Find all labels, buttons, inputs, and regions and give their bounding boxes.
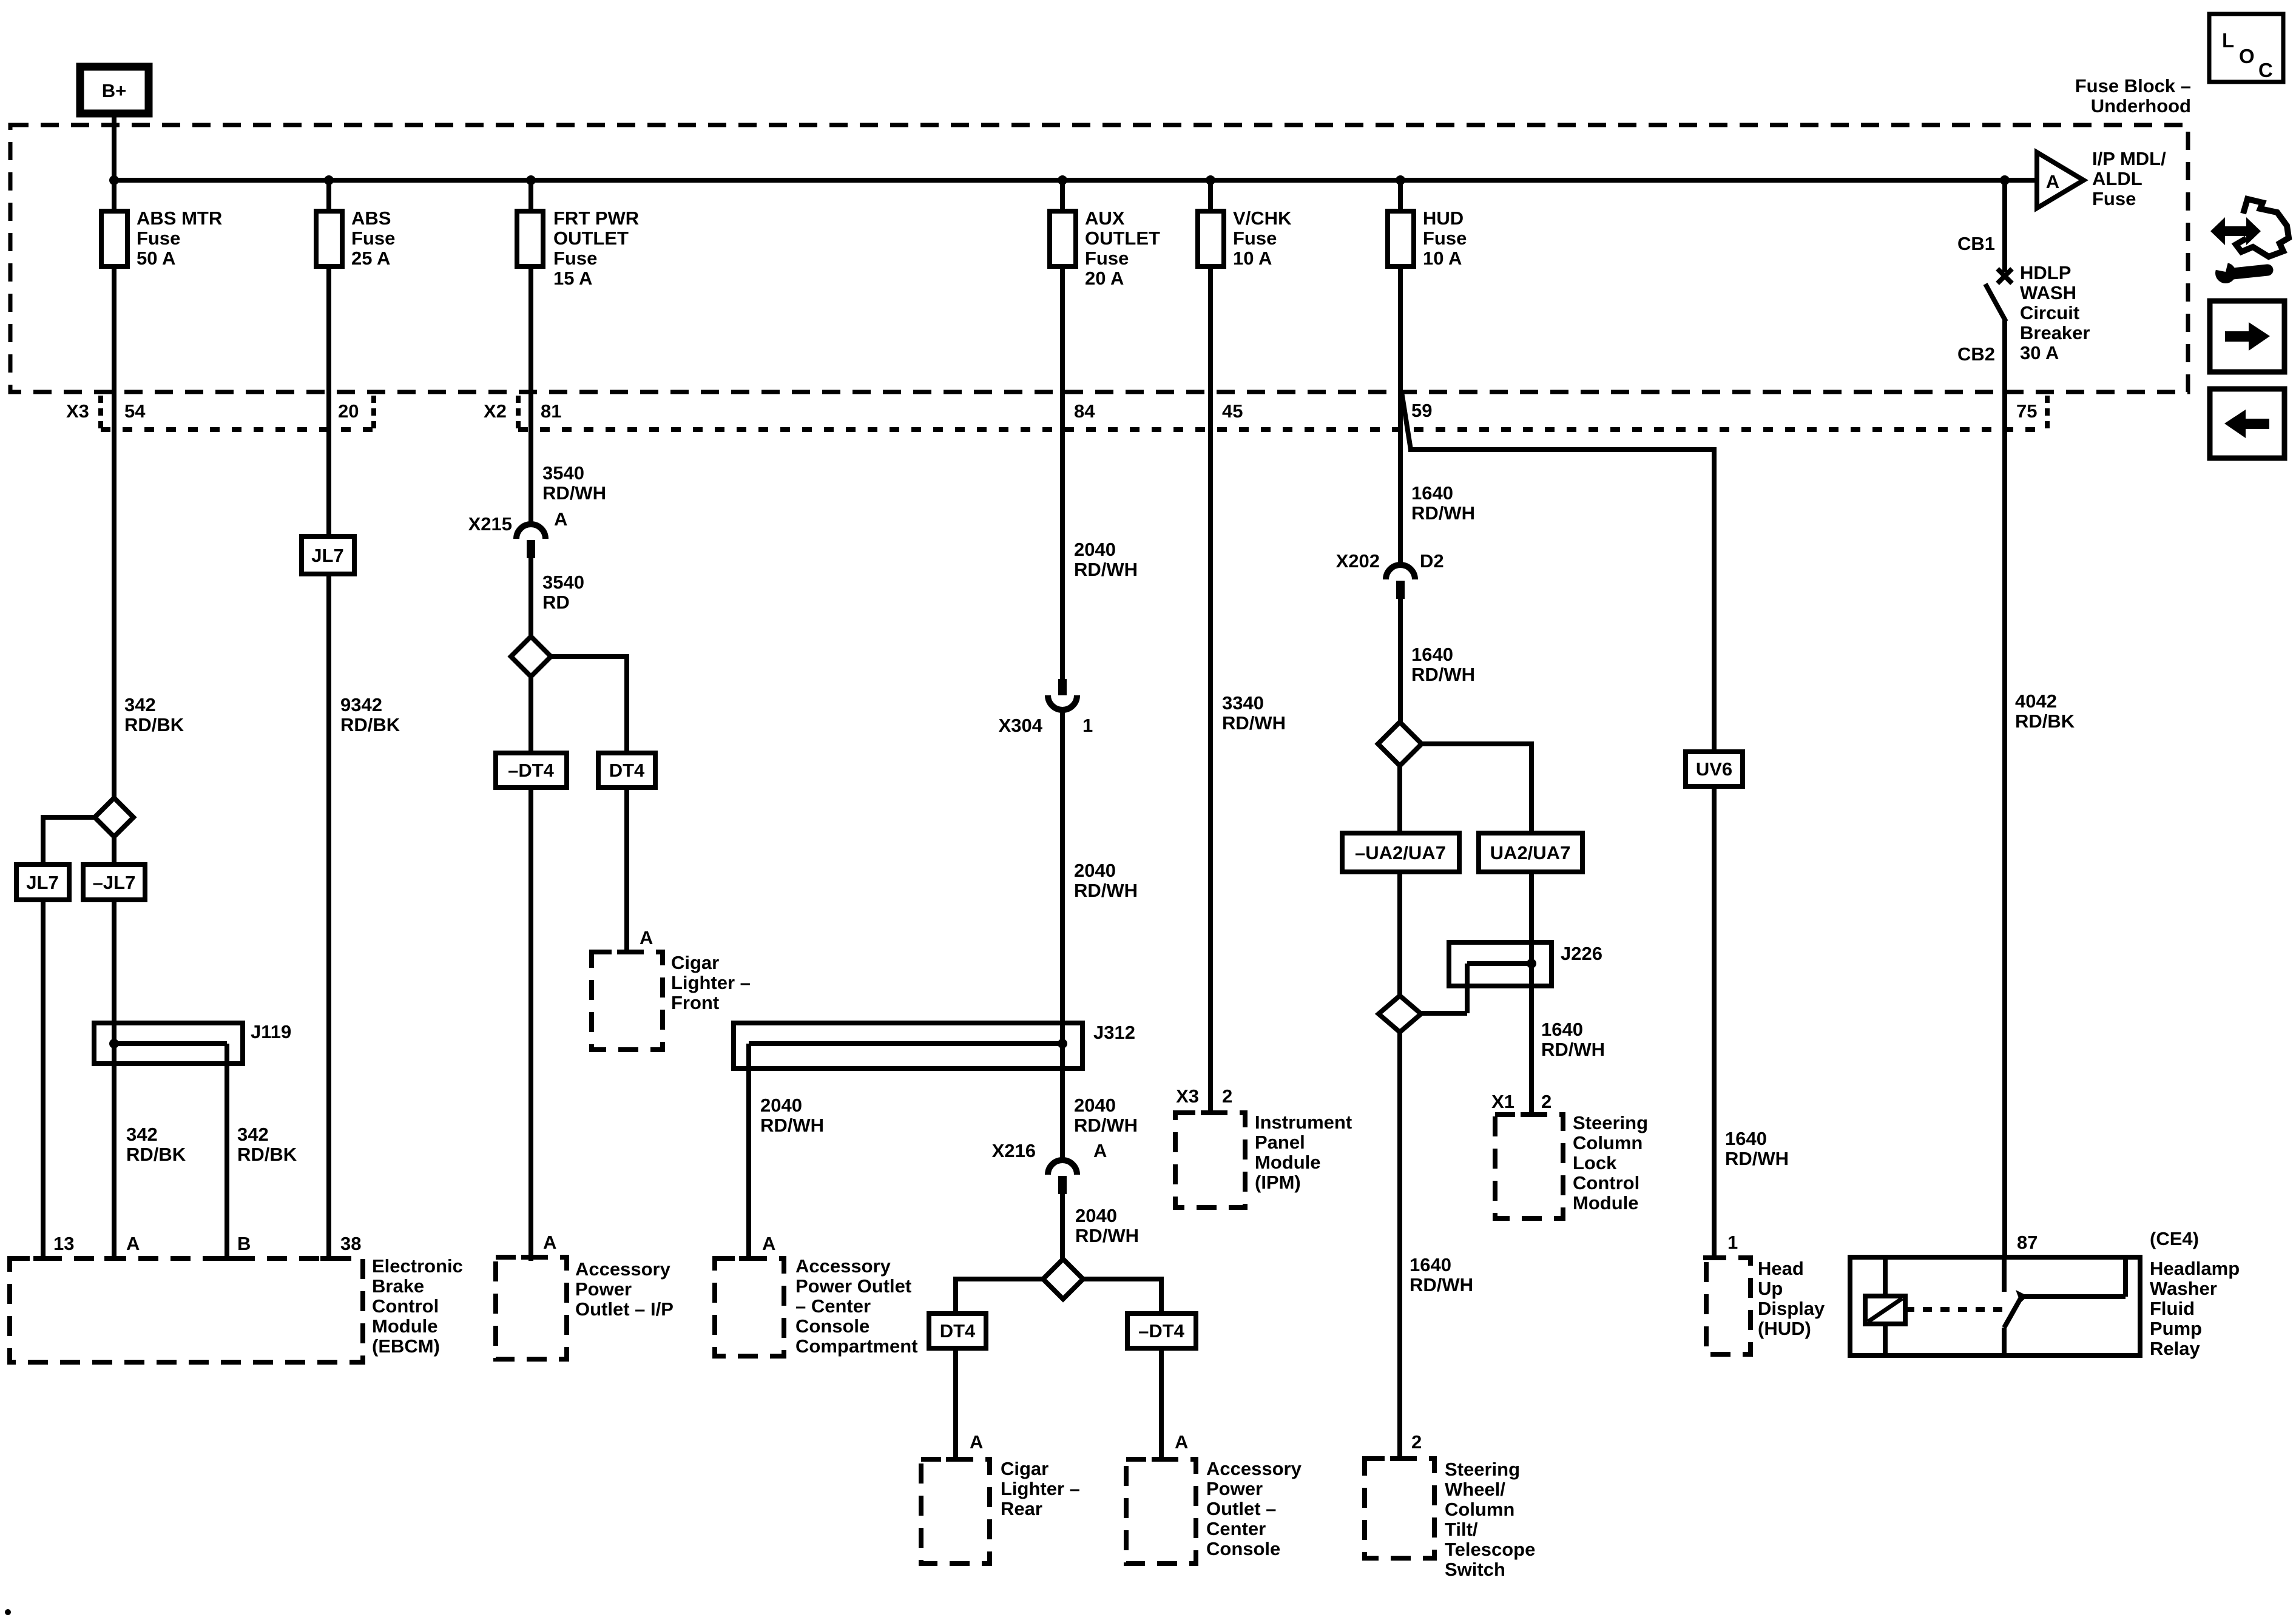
wire bbox=[1465, 964, 1470, 1013]
svg-text:Display: Display bbox=[1758, 1298, 1825, 1319]
svg-text:54: 54 bbox=[124, 400, 146, 422]
svg-text:2: 2 bbox=[1541, 1091, 1551, 1112]
svg-text:2040: 2040 bbox=[760, 1095, 802, 1116]
svg-text:2: 2 bbox=[1222, 1085, 1232, 1107]
svg-text:Wheel/: Wheel/ bbox=[1445, 1479, 1505, 1500]
wire UA2/UA7 to J226 bbox=[1529, 872, 1534, 942]
svg-text:Up: Up bbox=[1758, 1278, 1783, 1299]
svg-text:V/CHK: V/CHK bbox=[1233, 208, 1292, 229]
wire DT4 to cigar lighter front bbox=[624, 788, 629, 952]
svg-text:50 A: 50 A bbox=[137, 248, 175, 269]
svg-text:ALDL: ALDL bbox=[2092, 168, 2142, 189]
option box -DT4 center console bbox=[1127, 1314, 1196, 1348]
wire splice to -UA2/UA7 bbox=[1397, 766, 1402, 833]
svg-text:RD/WH: RD/WH bbox=[1075, 1225, 1139, 1246]
splice S1 bbox=[95, 798, 133, 837]
splice S3 bbox=[1043, 1259, 1083, 1299]
svg-text:A: A bbox=[640, 927, 653, 948]
svg-text:1640: 1640 bbox=[1725, 1128, 1767, 1149]
svg-text:84: 84 bbox=[1074, 400, 1095, 422]
svg-text:Fuse Block –: Fuse Block – bbox=[2075, 75, 2191, 96]
svg-text:JL7: JL7 bbox=[311, 545, 343, 566]
svg-text:HUD: HUD bbox=[1423, 208, 1464, 229]
svg-text:Pump: Pump bbox=[2150, 1318, 2202, 1339]
svg-text:Lighter –: Lighter – bbox=[671, 972, 751, 993]
svg-text:JL7: JL7 bbox=[26, 872, 58, 893]
wire relay lower leg bbox=[2002, 1328, 2007, 1353]
wire bbox=[1208, 183, 1213, 211]
junction bus HUD fuse bbox=[1396, 175, 1405, 185]
svg-text:Washer: Washer bbox=[2150, 1278, 2217, 1299]
svg-text:20: 20 bbox=[338, 400, 359, 422]
wire -JL7 to J119 bbox=[112, 900, 116, 1023]
wire 2040 RD/WH to splice bbox=[1060, 1194, 1065, 1259]
svg-text:J226: J226 bbox=[1561, 943, 1602, 964]
svg-text:Module: Module bbox=[1573, 1192, 1639, 1214]
junction in J226 bbox=[1527, 959, 1536, 968]
splice S5 bbox=[1379, 996, 1421, 1032]
svg-text:RD/WH: RD/WH bbox=[1541, 1039, 1605, 1060]
component Accessory Power Outlet - Center Console dashed box bbox=[1126, 1459, 1196, 1564]
svg-text:75: 75 bbox=[2016, 400, 2037, 422]
svg-text:Rear: Rear bbox=[1001, 1498, 1042, 1519]
J226 internal bus bbox=[1467, 961, 1531, 966]
svg-text:Console: Console bbox=[795, 1315, 869, 1337]
svg-text:2040: 2040 bbox=[1074, 539, 1116, 560]
junction bus AUX fuse bbox=[1058, 175, 1067, 185]
component Accessory Power Outlet - Center Console Compartment dashed box bbox=[715, 1258, 784, 1356]
svg-text:(EBCM): (EBCM) bbox=[372, 1335, 440, 1357]
svg-text:Steering: Steering bbox=[1445, 1459, 1520, 1480]
svg-text:2: 2 bbox=[1411, 1431, 1422, 1453]
svg-text:RD/BK: RD/BK bbox=[2015, 711, 2075, 732]
svg-text:Panel: Panel bbox=[1255, 1132, 1305, 1153]
svg-text:Fuse: Fuse bbox=[1233, 228, 1277, 249]
wire bbox=[1398, 183, 1403, 211]
wire bbox=[1985, 284, 2006, 322]
svg-text:UA2/UA7: UA2/UA7 bbox=[1490, 842, 1571, 863]
svg-text:38: 38 bbox=[340, 1233, 361, 1254]
svg-text:Power: Power bbox=[1206, 1478, 1263, 1499]
svg-text:3340: 3340 bbox=[1222, 692, 1264, 714]
wire 1640 RD/WH to tilt switch bbox=[1397, 1032, 1402, 1459]
wire relay switch output bbox=[2023, 1294, 2125, 1299]
svg-text:Outlet – I/P: Outlet – I/P bbox=[575, 1298, 674, 1320]
svg-text:A: A bbox=[762, 1233, 775, 1254]
svg-text:87: 87 bbox=[2017, 1232, 2038, 1253]
svg-text:Fuse: Fuse bbox=[137, 228, 180, 249]
svg-text:Accessory: Accessory bbox=[795, 1255, 891, 1277]
svg-text:Underhood: Underhood bbox=[2091, 95, 2191, 116]
svg-text:A: A bbox=[126, 1233, 140, 1254]
svg-text:RD/WH: RD/WH bbox=[1410, 1274, 1473, 1295]
svg-text:1: 1 bbox=[1727, 1232, 1738, 1253]
wire 9342 RD/BK to EBCM pin 38 bbox=[326, 574, 331, 1261]
svg-text:RD/WH: RD/WH bbox=[542, 482, 606, 504]
svg-text:Module: Module bbox=[1255, 1152, 1321, 1173]
svg-text:X3: X3 bbox=[1176, 1085, 1199, 1107]
wire 3540 RD/WH from pin 81 bbox=[528, 266, 533, 524]
svg-text:3540: 3540 bbox=[542, 572, 584, 593]
svg-text:1640: 1640 bbox=[1541, 1019, 1583, 1040]
svg-text:(HUD): (HUD) bbox=[1758, 1318, 1811, 1339]
svg-text:J312: J312 bbox=[1093, 1022, 1135, 1043]
svg-text:RD/BK: RD/BK bbox=[340, 714, 400, 735]
wire bbox=[1712, 447, 1717, 752]
svg-text:RD/WH: RD/WH bbox=[1725, 1148, 1789, 1169]
connector X216 pin A bbox=[1048, 1160, 1077, 1175]
option box -UA2/UA7 bbox=[1342, 833, 1459, 872]
svg-text:81: 81 bbox=[541, 400, 561, 422]
wire 342 RD/BK from fuse 54 bbox=[112, 266, 116, 798]
svg-text:L: L bbox=[2222, 29, 2234, 52]
wire 3540 RD bbox=[528, 558, 533, 638]
svg-text:CB2: CB2 bbox=[1957, 343, 1995, 365]
svg-text:Fuse: Fuse bbox=[351, 228, 395, 249]
svg-text:X304: X304 bbox=[999, 715, 1043, 736]
svg-text:OUTLET: OUTLET bbox=[553, 228, 629, 249]
wire splice to -DT4 center console bbox=[1083, 1277, 1161, 1281]
svg-text:Accessory: Accessory bbox=[1206, 1458, 1302, 1479]
svg-text:Control: Control bbox=[372, 1295, 439, 1317]
svg-text:Steering: Steering bbox=[1573, 1112, 1648, 1133]
svg-text:Fuse: Fuse bbox=[1085, 248, 1129, 269]
svg-text:Circuit: Circuit bbox=[2020, 302, 2079, 323]
wire splice to -DT4 bbox=[528, 677, 533, 753]
svg-text:Cigar: Cigar bbox=[1001, 1458, 1048, 1479]
svg-text:Tilt/: Tilt/ bbox=[1445, 1519, 1478, 1540]
svg-text:RD/WH: RD/WH bbox=[1074, 1115, 1138, 1136]
svg-text:RD/BK: RD/BK bbox=[126, 1144, 186, 1165]
svg-text:(CE4): (CE4) bbox=[2150, 1228, 2199, 1249]
splice S2 bbox=[511, 636, 551, 677]
svg-text:X216: X216 bbox=[992, 1140, 1036, 1161]
svg-text:J119: J119 bbox=[251, 1021, 291, 1042]
wire bbox=[624, 654, 629, 753]
module Steering Column Lock Control Module dashed box bbox=[1495, 1115, 1563, 1218]
svg-text:– Center: – Center bbox=[795, 1295, 871, 1317]
wire bbox=[112, 183, 116, 211]
svg-text:X202: X202 bbox=[1336, 550, 1380, 572]
svg-text:–DT4: –DT4 bbox=[508, 760, 555, 781]
wire bbox=[112, 1023, 116, 1064]
svg-text:O: O bbox=[2239, 45, 2255, 67]
wire bbox=[516, 396, 521, 433]
connector X304 pin 1 bbox=[1058, 679, 1067, 695]
wire bbox=[1905, 1307, 2008, 1312]
wire 1640 RD/WH to HUD bbox=[1712, 786, 1717, 1258]
svg-text:342: 342 bbox=[124, 694, 156, 715]
svg-text:CB1: CB1 bbox=[1957, 233, 1995, 254]
svg-text:DT4: DT4 bbox=[609, 760, 645, 781]
svg-text:X1: X1 bbox=[1491, 1091, 1514, 1112]
wire J312 down to X216 bbox=[1060, 1068, 1065, 1160]
svg-text:Lighter –: Lighter – bbox=[1001, 1478, 1080, 1499]
svg-text:Compartment: Compartment bbox=[795, 1335, 918, 1357]
svg-text:30 A: 30 A bbox=[2020, 342, 2059, 363]
option box -DT4 bbox=[496, 753, 567, 788]
svg-text:Head: Head bbox=[1758, 1258, 1804, 1279]
svg-text:2040: 2040 bbox=[1074, 1095, 1116, 1116]
svg-text:(IPM): (IPM) bbox=[1255, 1172, 1301, 1193]
svg-text:WASH: WASH bbox=[2020, 282, 2076, 303]
svg-text:3540: 3540 bbox=[542, 462, 584, 484]
svg-text:RD/WH: RD/WH bbox=[1411, 664, 1475, 685]
svg-text:Telescope: Telescope bbox=[1445, 1539, 1535, 1560]
svg-text:AUX: AUX bbox=[1085, 208, 1125, 229]
svg-text:DT4: DT4 bbox=[940, 1320, 976, 1342]
node B+ battery feed bbox=[80, 67, 149, 113]
wire bbox=[2045, 396, 2050, 433]
svg-text:15 A: 15 A bbox=[553, 268, 592, 289]
svg-text:2040: 2040 bbox=[1075, 1205, 1117, 1226]
svg-text:RD/BK: RD/BK bbox=[124, 714, 184, 735]
wire bbox=[518, 427, 2047, 432]
wire coil bottom lead bbox=[1883, 1324, 1888, 1353]
wire JL7 to EBCM pin 13 bbox=[41, 900, 46, 1261]
svg-text:–DT4: –DT4 bbox=[1138, 1320, 1185, 1342]
svg-text:1: 1 bbox=[1082, 715, 1093, 736]
svg-text:Power: Power bbox=[575, 1278, 632, 1300]
junction in J119 bbox=[109, 1039, 119, 1048]
component Cigar Lighter - Front dashed box bbox=[592, 952, 663, 1050]
svg-text:RD: RD bbox=[542, 592, 570, 613]
wire bbox=[1529, 942, 1534, 986]
wire 2040 RD/WH to J312 bbox=[1060, 710, 1065, 1023]
svg-text:X215: X215 bbox=[468, 513, 512, 535]
svg-text:B: B bbox=[237, 1233, 251, 1254]
wire bbox=[528, 183, 533, 211]
svg-text:Fuse: Fuse bbox=[2092, 188, 2136, 209]
svg-text:–UA2/UA7: –UA2/UA7 bbox=[1355, 842, 1446, 863]
connector X202 pin D2 bbox=[1386, 565, 1415, 579]
svg-text:1640: 1640 bbox=[1411, 644, 1453, 665]
wire fuse 20 down bbox=[326, 266, 331, 536]
relay Headlamp Washer Fluid Pump Relay box bbox=[1850, 1257, 2140, 1355]
connector X215 pin A bbox=[516, 524, 545, 539]
component Head Up Display dashed box bbox=[1706, 1258, 1751, 1354]
wire DT4 to cigar lighter rear bbox=[953, 1348, 958, 1459]
wire bbox=[953, 1277, 958, 1314]
wire J119 to EBCM pin A bbox=[112, 1064, 116, 1261]
svg-text:1640: 1640 bbox=[1411, 482, 1453, 504]
svg-text:Module: Module bbox=[372, 1315, 438, 1337]
component Accessory Power Outlet - I/P dashed box bbox=[496, 1257, 567, 1359]
icon arrow left box bbox=[2210, 389, 2284, 458]
junction bus V/CHK fuse bbox=[1206, 175, 1215, 185]
wire bbox=[2123, 1260, 2128, 1297]
svg-text:RD/WH: RD/WH bbox=[1074, 559, 1138, 580]
svg-text:Control: Control bbox=[1573, 1172, 1639, 1193]
option box JL7 branch 2 bbox=[302, 536, 354, 574]
wire -DT4 to outlet pin A bbox=[528, 788, 533, 1261]
Fuse Block - Underhood dashed border bbox=[10, 125, 2188, 392]
svg-text:10 A: 10 A bbox=[1233, 248, 1272, 269]
wire coil top lead bbox=[1883, 1260, 1888, 1296]
svg-text:B+: B+ bbox=[102, 80, 127, 101]
wire -UA2/UA7 to splice S5 bbox=[1397, 872, 1402, 996]
wire 3340 RD/WH from pin 45 bbox=[1208, 266, 1213, 1113]
svg-text:Front: Front bbox=[671, 992, 719, 1013]
wire splice right to UA2/UA7 bbox=[1422, 741, 1531, 746]
option box DT4 rear bbox=[929, 1314, 986, 1348]
junction bus FRT PWR fuse bbox=[526, 175, 536, 185]
svg-text:25 A: 25 A bbox=[351, 248, 390, 269]
svg-text:9342: 9342 bbox=[340, 694, 382, 715]
svg-text:D2: D2 bbox=[1420, 550, 1444, 572]
svg-text:Center: Center bbox=[1206, 1518, 1266, 1539]
svg-text:Column: Column bbox=[1445, 1499, 1514, 1520]
svg-text:OUTLET: OUTLET bbox=[1085, 228, 1160, 249]
option box UA2/UA7 bbox=[1479, 833, 1582, 872]
svg-text:A: A bbox=[970, 1431, 983, 1453]
svg-text:Lock: Lock bbox=[1573, 1152, 1617, 1173]
wire bbox=[1159, 1277, 1164, 1314]
svg-text:Switch: Switch bbox=[1445, 1559, 1505, 1580]
wire 1640 RD/WH from pin 59 bbox=[1398, 266, 1403, 565]
wire splice to -JL7 bbox=[112, 837, 116, 865]
svg-text:Column: Column bbox=[1573, 1132, 1643, 1153]
wire J312 to APO center console compartment bbox=[746, 1044, 751, 1261]
svg-text:2040: 2040 bbox=[1074, 860, 1116, 881]
svg-text:Power Outlet: Power Outlet bbox=[795, 1275, 911, 1297]
svg-text:Headlamp: Headlamp bbox=[2150, 1258, 2240, 1279]
wire bbox=[1060, 183, 1065, 211]
svg-text:Fuse: Fuse bbox=[553, 248, 597, 269]
icon LOC box bbox=[2209, 14, 2283, 82]
wire 4042 RD/BK to relay pin 87 bbox=[2002, 320, 2007, 1257]
svg-text:Console: Console bbox=[1206, 1538, 1280, 1559]
wire 1640 RD/WH to splice bbox=[1398, 599, 1403, 722]
wire bbox=[1529, 741, 1534, 833]
svg-text:UV6: UV6 bbox=[1696, 758, 1732, 780]
junction bus/B+ bbox=[109, 175, 119, 185]
wire B+ drop bbox=[112, 113, 116, 178]
svg-text:C: C bbox=[2258, 59, 2273, 81]
wire bbox=[98, 396, 103, 433]
svg-text:Fluid: Fluid bbox=[2150, 1298, 2195, 1319]
svg-text:13: 13 bbox=[53, 1233, 74, 1254]
option box UV6 bbox=[1686, 752, 1743, 786]
svg-text:ABS: ABS bbox=[351, 208, 391, 229]
wire splice left branch bbox=[43, 815, 95, 820]
svg-text:4042: 4042 bbox=[2015, 690, 2057, 712]
svg-text:–JL7: –JL7 bbox=[93, 872, 136, 893]
wire J226 to splice S5 bbox=[1421, 1011, 1467, 1016]
component Steering Wheel/Column Tilt/Telescope Switch dashed box bbox=[1365, 1459, 1434, 1558]
wire splice right branch bbox=[551, 654, 627, 659]
svg-text:10 A: 10 A bbox=[1423, 248, 1462, 269]
wire bbox=[1408, 447, 1714, 452]
svg-text:RD/WH: RD/WH bbox=[1074, 880, 1138, 901]
junction block J312 bbox=[734, 1023, 1082, 1068]
svg-text:A: A bbox=[1175, 1431, 1188, 1453]
svg-text:X3: X3 bbox=[66, 400, 89, 422]
wire bbox=[326, 183, 331, 211]
wire pin 87 inside relay bbox=[2002, 1260, 2007, 1292]
svg-text:20 A: 20 A bbox=[1085, 268, 1124, 289]
svg-text:A: A bbox=[1093, 1140, 1107, 1161]
node A arrow to I/P MDL/ALDL Fuse bbox=[2037, 152, 2084, 208]
splice S4 bbox=[1378, 722, 1422, 766]
svg-text:Brake: Brake bbox=[372, 1275, 424, 1297]
J312 internal bus bbox=[749, 1041, 1062, 1046]
svg-text:ABS MTR: ABS MTR bbox=[137, 208, 222, 229]
svg-text:1640: 1640 bbox=[1410, 1254, 1451, 1275]
svg-text:342: 342 bbox=[237, 1124, 269, 1145]
option box -JL7 bbox=[83, 865, 145, 900]
module EBCM dashed box bbox=[10, 1258, 363, 1362]
svg-text:Relay: Relay bbox=[2150, 1338, 2200, 1359]
svg-text:RD/WH: RD/WH bbox=[760, 1115, 824, 1136]
icon tools (double arrow + wrench) bbox=[2207, 199, 2289, 283]
svg-text:HDLP: HDLP bbox=[2020, 262, 2071, 283]
wire bbox=[101, 427, 374, 432]
wire bbox=[371, 396, 376, 433]
svg-text:RD/BK: RD/BK bbox=[237, 1144, 297, 1165]
wire bbox=[2002, 183, 2007, 272]
svg-text:I/P MDL/: I/P MDL/ bbox=[2092, 148, 2166, 169]
wire bbox=[1402, 392, 1411, 450]
wire 1640 RD/WH to SCLCM bbox=[1529, 986, 1534, 1115]
wire bbox=[41, 815, 46, 865]
svg-text:Outlet –: Outlet – bbox=[1206, 1498, 1276, 1519]
junction block J226 bbox=[1449, 942, 1551, 986]
svg-text:FRT PWR: FRT PWR bbox=[553, 208, 639, 229]
svg-text:A: A bbox=[2046, 171, 2059, 192]
wire 2040 RD/WH from pin 84 bbox=[1060, 266, 1065, 679]
svg-text:Instrument: Instrument bbox=[1255, 1112, 1352, 1133]
svg-text:RD/WH: RD/WH bbox=[1222, 712, 1286, 734]
junction bus ABS fuse bbox=[324, 175, 334, 185]
J119 internal bus bbox=[114, 1041, 227, 1046]
svg-text:59: 59 bbox=[1411, 400, 1432, 421]
junction in J312 bbox=[1058, 1039, 1067, 1048]
svg-text:342: 342 bbox=[126, 1124, 158, 1145]
icon arrow right box bbox=[2210, 301, 2284, 372]
wire bbox=[1060, 1023, 1065, 1068]
svg-text:X2: X2 bbox=[484, 400, 507, 422]
svg-text:Electronic: Electronic bbox=[372, 1255, 463, 1277]
svg-text:Breaker: Breaker bbox=[2020, 322, 2090, 343]
module Instrument Panel Module dashed box bbox=[1175, 1113, 1245, 1207]
svg-text:A: A bbox=[543, 1232, 556, 1253]
component Cigar Lighter - Rear dashed box bbox=[921, 1459, 990, 1564]
wire splice to DT4 rear bbox=[956, 1277, 1043, 1281]
svg-text:Accessory: Accessory bbox=[575, 1258, 671, 1280]
svg-text:Cigar: Cigar bbox=[671, 952, 719, 973]
svg-text:Fuse: Fuse bbox=[1423, 228, 1467, 249]
junction bus CB bbox=[2000, 175, 2010, 185]
wire -DT4 to APO center console bbox=[1159, 1348, 1164, 1459]
svg-text:45: 45 bbox=[1222, 400, 1243, 422]
svg-text:A: A bbox=[554, 508, 567, 530]
wire J119 to EBCM pin B bbox=[225, 1044, 229, 1261]
junction block J119 bbox=[94, 1023, 243, 1064]
option box JL7 bbox=[16, 865, 69, 900]
option box DT4 bbox=[598, 753, 655, 788]
relay coil bbox=[1865, 1296, 1905, 1324]
wire main B+ bus bbox=[112, 178, 2037, 183]
svg-text:RD/WH: RD/WH bbox=[1411, 502, 1475, 524]
period mark bottom left bbox=[5, 1609, 11, 1615]
